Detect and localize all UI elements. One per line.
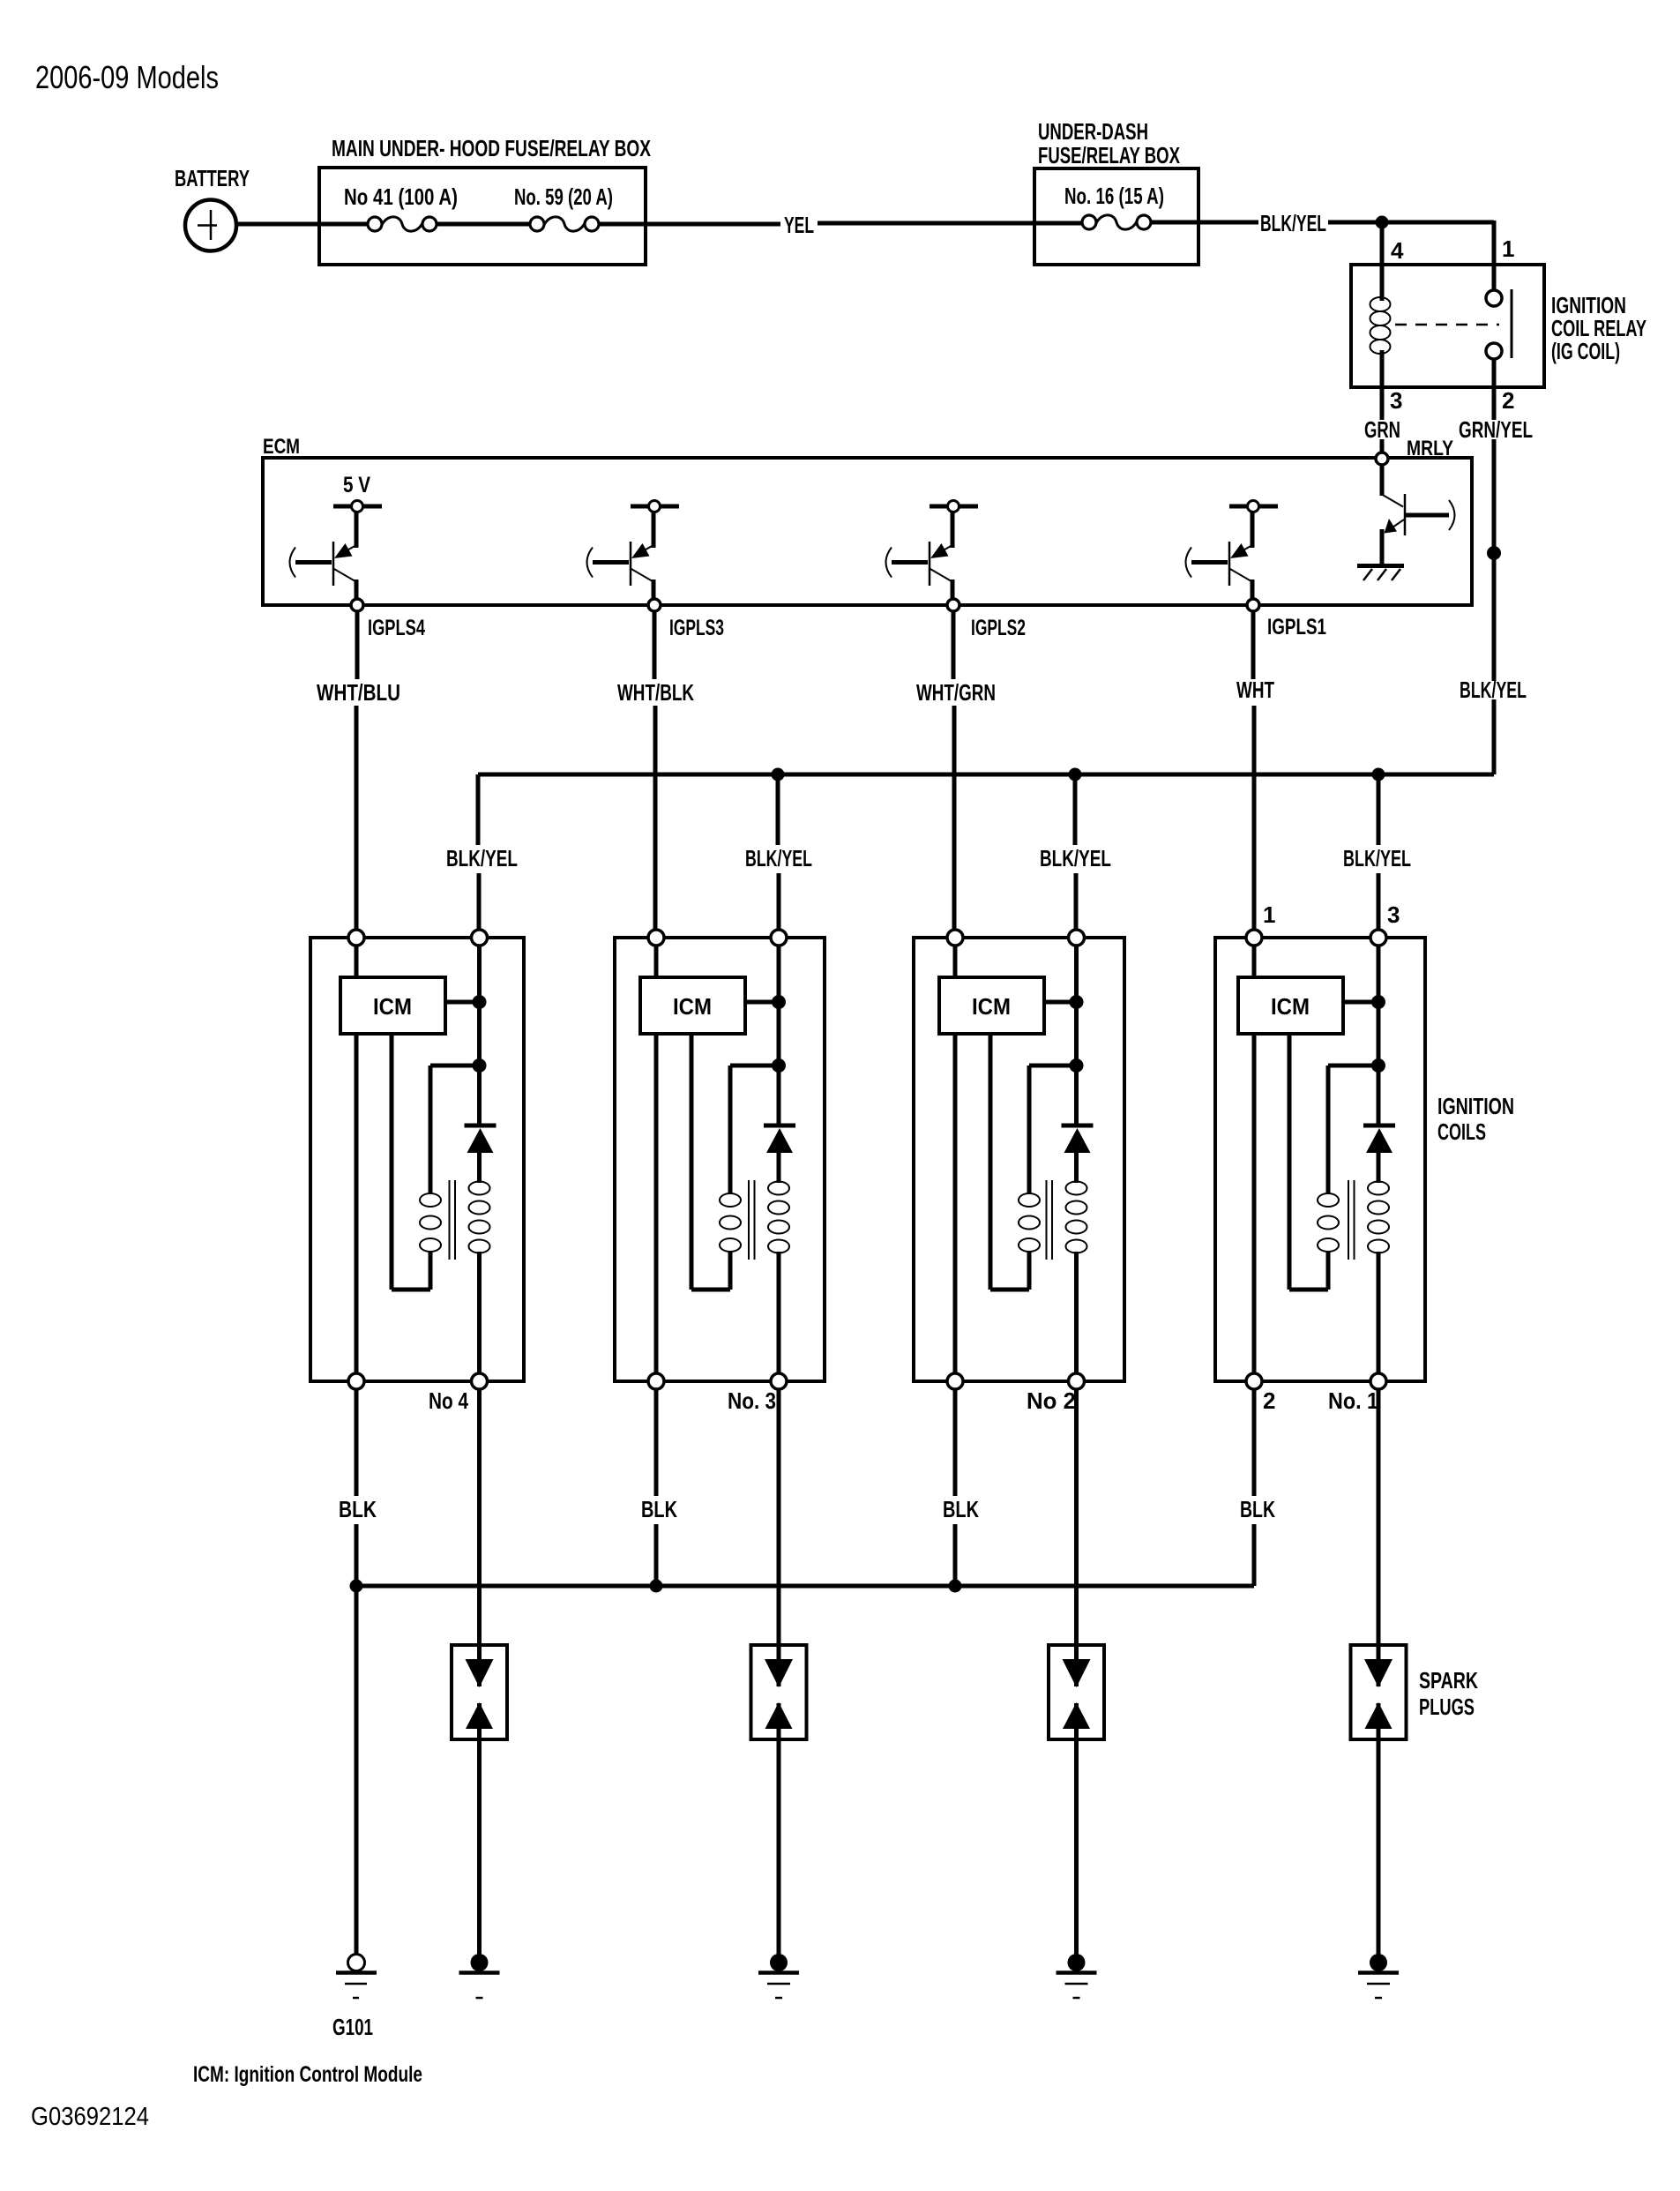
secondary winding of No 4: [469, 1151, 490, 1373]
svg-text:BLK/YEL: BLK/YEL: [1040, 845, 1111, 871]
pin number 1: [1502, 236, 1514, 262]
svg-text:2006-09 Models: 2006-09 Models: [35, 59, 219, 95]
ECM box: [263, 435, 1472, 605]
ground spark plug No 1: [1358, 1954, 1399, 1998]
ICM module of No 3: [640, 977, 745, 1034]
wire ICM of No 4 output to supply node: [445, 1000, 480, 1005]
junction node bus to coil No 2 branch: [1069, 768, 1082, 781]
diode D of No 1: [1363, 1066, 1395, 1153]
wire coil No 2 secondary to spark plug: [1074, 1389, 1079, 1686]
svg-text:No. 59 (20 A): No. 59 (20 A): [514, 183, 613, 210]
junction node ICM output No 1: [1371, 995, 1385, 1009]
svg-text:BLK: BLK: [943, 1496, 979, 1522]
svg-text:No 4: No 4: [429, 1387, 468, 1414]
wire WHT/BLK ECM IGPLS3 to coil No 3: [654, 611, 655, 930]
svg-text:No 2: No 2: [1027, 1387, 1076, 1414]
junction node ICM output No 3: [772, 995, 786, 1009]
wire supply node to primary node No 2: [1074, 1002, 1079, 1066]
transistor Q5 MRLY driver: [1381, 465, 1455, 565]
wire WHT ECM IGPLS1 to coil No 1: [1253, 611, 1254, 930]
transistor Q4 IGPLS4 driver with 5 V supply: [290, 473, 383, 611]
svg-text:BLK: BLK: [641, 1496, 677, 1522]
svg-text:G03692124: G03692124: [31, 2103, 149, 2131]
svg-text:3: 3: [1390, 387, 1402, 414]
svg-text:WHT/BLU: WHT/BLU: [317, 679, 400, 706]
relay contact: [1395, 265, 1512, 387]
wire supply node to primary node No 1: [1377, 1002, 1381, 1066]
label GRN: [1364, 416, 1400, 443]
label BLK No 1: [1240, 1496, 1275, 1522]
ignition coil relay box: [1351, 265, 1646, 387]
No 1 bottom right terminal: [1370, 1373, 1386, 1389]
branch wire BLK/YEL to coil No 1: [1377, 774, 1381, 930]
svg-text:YEL: YEL: [784, 212, 814, 238]
label BLK/YEL right side: [1460, 677, 1527, 703]
svg-text:ICM: Ignition Control Module: ICM: Ignition Control Module: [193, 2062, 422, 2087]
label IGPLS1: [1267, 615, 1326, 639]
svg-text:1: 1: [1502, 236, 1514, 262]
svg-text:No. 16 (15 A): No. 16 (15 A): [1064, 183, 1164, 209]
ignition coil No 1 box: [1215, 938, 1425, 1381]
No 4 bottom left terminal: [348, 1373, 364, 1389]
wire ICM of No 3 output to supply node: [745, 1000, 779, 1005]
diode D of No 3: [764, 1066, 795, 1153]
wire junction to relay pin 1: [1382, 221, 1494, 265]
primary winding of No 1: [1289, 1034, 1378, 1290]
wire supply node to primary node No 3: [777, 1002, 781, 1066]
wire supply into No 1: [1377, 946, 1381, 1002]
svg-text:(IG COIL): (IG COIL): [1551, 338, 1620, 364]
svg-text:2: 2: [1263, 1387, 1275, 1414]
ground spark plug No 2: [1057, 1954, 1097, 1998]
No 3 top left terminal: [648, 930, 664, 946]
diode D of No 2: [1062, 1066, 1094, 1153]
wire WHT/GRN ECM IGPLS2 to coil No 2: [953, 611, 954, 930]
label BLK No 3: [641, 1496, 677, 1522]
junction node bus to coil No 3 branch: [772, 768, 785, 781]
svg-text:BLK/YEL: BLK/YEL: [1260, 210, 1326, 236]
label IGPLS2: [971, 616, 1026, 640]
figure number G03692124: [31, 2103, 149, 2131]
wire supply into No 3: [777, 946, 781, 1002]
junction node BLK bus coil No 2: [949, 1580, 962, 1593]
ECM MRLY output terminal: [1376, 452, 1388, 465]
wire ICM of No 1 output to supply node: [1343, 1000, 1378, 1005]
label No. 1 of No 1: [1328, 1387, 1378, 1414]
branch wire BLK/YEL to coil No 2: [1075, 774, 1076, 930]
svg-text:WHT/GRN: WHT/GRN: [916, 679, 996, 706]
svg-text:ICM: ICM: [673, 993, 712, 1020]
spark plug P4: [452, 1645, 507, 1739]
junction node ICM output No 4: [473, 995, 487, 1009]
pin number 2: [1502, 387, 1514, 414]
pin number 3 coil No 1: [1387, 901, 1400, 928]
svg-text:MAIN UNDER- HOOD FUSE/RELAY BO: MAIN UNDER- HOOD FUSE/RELAY BOX: [332, 135, 651, 161]
wire ICM of No 2 output to supply node: [1044, 1000, 1077, 1005]
wire BLK from coil No 2: [953, 1389, 958, 1586]
svg-text:ICM: ICM: [1271, 993, 1310, 1020]
svg-text:COILS: COILS: [1437, 1118, 1486, 1145]
wire spark plug No 2 to ground: [1074, 1703, 1079, 1955]
wire YEL fuse box to under-dash box: [599, 223, 1082, 224]
svg-text:IGPLS1: IGPLS1: [1267, 615, 1326, 639]
wire GRN relay pin 3 to ECM MRLY: [1380, 387, 1385, 452]
wire BLK bus down to ground G101: [355, 1586, 359, 1955]
junction node primary/diode No 4: [473, 1058, 487, 1073]
svg-text:WHT/BLK: WHT/BLK: [617, 679, 694, 706]
primary winding of No 2: [990, 1034, 1077, 1290]
svg-text:No. 1: No. 1: [1328, 1387, 1378, 1414]
junction node bus to coil No 1 branch: [1372, 768, 1385, 781]
pin number 4: [1391, 237, 1404, 264]
wire coil No 4 secondary to spark plug: [477, 1389, 482, 1686]
transformer core of No 1: [1348, 1180, 1355, 1260]
ignition coil No 4 box: [310, 938, 524, 1381]
label MRLY: [1407, 437, 1453, 460]
svg-text:4: 4: [1391, 237, 1404, 264]
wire supply into No 4: [477, 946, 482, 1002]
svg-text:3: 3: [1387, 901, 1400, 928]
label YEL: [784, 212, 814, 238]
svg-text:BLK: BLK: [1240, 1496, 1275, 1522]
No 3 top right terminal: [771, 930, 787, 946]
svg-text:BLK/YEL: BLK/YEL: [1460, 677, 1527, 703]
wire supply into No 2: [1074, 946, 1079, 1002]
spark plug P3: [751, 1645, 807, 1739]
fuse No. 16 (15 A): [1064, 183, 1164, 229]
transformer core of No 3: [749, 1180, 755, 1260]
wire trigger into ICM of No 4: [355, 946, 359, 977]
wire ICM of No 2 to ground terminal: [953, 1034, 958, 1373]
No 1 top right terminal: [1370, 930, 1386, 946]
junction node primary/diode No 2: [1070, 1058, 1084, 1073]
ICM module of No 2: [939, 977, 1044, 1034]
svg-text:ICM: ICM: [972, 993, 1011, 1020]
label BLK/YEL branch 3: [745, 845, 812, 871]
primary winding of No 4: [392, 1034, 480, 1290]
svg-text:No. 3: No. 3: [728, 1387, 776, 1414]
wire WHT/BLU ECM IGPLS4 to coil No 4: [356, 611, 357, 930]
wire ICM of No 1 to ground terminal: [1252, 1034, 1257, 1373]
under-dash fuse/relay box: [1034, 118, 1198, 265]
wire BLK from coil No 4: [355, 1389, 359, 1586]
svg-text:1: 1: [1263, 901, 1275, 928]
ignition coil No 2 box: [914, 938, 1124, 1381]
junction node BLK bus coil No 3: [650, 1580, 663, 1593]
junction node on BLK/YEL wire: [1487, 546, 1501, 560]
fuse No 41 (100 A): [344, 183, 458, 231]
ignition coil No 3 box: [615, 938, 825, 1381]
svg-text:5 V: 5 V: [343, 473, 370, 497]
spark plug P1: [1351, 1645, 1407, 1739]
label BLK No 4: [339, 1496, 377, 1522]
svg-text:BLK/YEL: BLK/YEL: [446, 845, 518, 871]
transistor Q2 IGPLS2 driver: [886, 501, 979, 612]
No 2 bottom left terminal: [947, 1373, 963, 1389]
junction node primary/diode No 3: [772, 1058, 786, 1073]
diode D of No 4: [465, 1066, 497, 1153]
No 4 top left terminal: [348, 930, 364, 946]
wire coil No 3 secondary to spark plug: [777, 1389, 781, 1686]
wire BLK/YEL supply bus: [478, 773, 1494, 777]
svg-text:SPARK: SPARK: [1419, 1667, 1478, 1694]
fuse No. 59 (20 A): [514, 183, 613, 231]
battery B1: [175, 165, 250, 251]
label WHT/BLU: [317, 679, 400, 706]
label BLK/YEL branch 4: [446, 845, 518, 871]
wire trigger into ICM of No 2: [953, 946, 958, 977]
secondary winding of No 2: [1066, 1151, 1087, 1373]
wire BLK from coil No 3: [654, 1389, 659, 1586]
junction node ICM output No 2: [1070, 995, 1084, 1009]
wire spark plug No 3 to ground: [777, 1703, 781, 1955]
ground spark plug No 3: [758, 1954, 799, 1998]
No 4 top right terminal: [472, 930, 488, 946]
label GRN/YEL: [1459, 416, 1533, 443]
svg-text:2: 2: [1502, 387, 1514, 414]
spark plug P2: [1049, 1645, 1104, 1739]
label SPARK PLUGS: [1419, 1667, 1478, 1720]
pin number 3: [1390, 387, 1402, 414]
wire ICM of No 3 to ground terminal: [654, 1034, 659, 1373]
svg-text:FUSE/RELAY BOX: FUSE/RELAY BOX: [1038, 142, 1180, 168]
svg-text:No 41 (100 A): No 41 (100 A): [344, 183, 458, 210]
svg-text:IGPLS2: IGPLS2: [971, 616, 1026, 640]
title text 2006-09 Models: [35, 59, 219, 95]
ground spark plug No 4: [459, 1954, 500, 1998]
ICM module of No 4: [340, 977, 445, 1034]
svg-text:GRN: GRN: [1364, 416, 1400, 443]
wire trigger into ICM of No 1: [1252, 946, 1257, 977]
wire ICM of No 4 to ground terminal: [355, 1034, 359, 1373]
label BLK/YEL branch 2: [1040, 845, 1111, 871]
No 2 top right terminal: [1069, 930, 1085, 946]
ground inside ECM for MRLY emitter: [1357, 566, 1404, 581]
wire battery to main fuse box: [236, 222, 368, 227]
svg-text:GRN/YEL: GRN/YEL: [1459, 416, 1533, 443]
wire BLK ground bus: [356, 1584, 1254, 1589]
svg-text:PLUGS: PLUGS: [1419, 1694, 1475, 1720]
label BLK No 2: [943, 1496, 979, 1522]
svg-text:G101: G101: [332, 2014, 373, 2040]
wire junction to relay pin 4: [1380, 222, 1385, 265]
transformer core of No 4: [450, 1180, 456, 1260]
No 4 bottom right terminal: [472, 1373, 488, 1389]
pin number 1 coil No 1: [1263, 901, 1275, 928]
No 1 bottom left terminal: [1246, 1373, 1262, 1389]
wire coil No 1 secondary to spark plug: [1377, 1389, 1381, 1686]
main under-hood fuse/relay box: [319, 135, 651, 265]
svg-text:BLK/YEL: BLK/YEL: [745, 845, 812, 871]
junction node primary/diode No 1: [1371, 1058, 1385, 1073]
wire spark plug No 1 to ground: [1377, 1703, 1381, 1955]
label BLK/YEL branch 1: [1343, 845, 1411, 871]
label IGPLS4: [368, 616, 425, 640]
label WHT/GRN: [916, 679, 996, 706]
No 3 bottom right terminal: [771, 1373, 787, 1389]
svg-text:ICM: ICM: [373, 993, 412, 1020]
No 3 bottom left terminal: [648, 1373, 664, 1389]
label No. 3 of No 3: [728, 1387, 776, 1414]
No 2 top left terminal: [947, 930, 963, 946]
svg-text:IGPLS3: IGPLS3: [669, 616, 724, 640]
label IGNITION COILS: [1437, 1093, 1514, 1145]
svg-text:BLK: BLK: [339, 1496, 377, 1522]
wire between fuses: [437, 222, 530, 227]
ICM module of No 1: [1238, 977, 1343, 1034]
wire spark plug No 4 to ground: [477, 1703, 482, 1955]
note ICM definition: [193, 2062, 422, 2087]
secondary winding of No 1: [1368, 1151, 1389, 1373]
label IGPLS3: [669, 616, 724, 640]
svg-text:BLK/YEL: BLK/YEL: [1343, 845, 1411, 871]
label WHT/BLK: [617, 679, 694, 706]
transistor Q3 IGPLS3 driver: [587, 501, 680, 612]
label pin 2 of No 1: [1263, 1387, 1275, 1414]
wire GRN/YEL then BLK/YEL relay pin 2 down to coil supply bus: [1492, 387, 1497, 774]
wire BLK from coil No 1: [1252, 1389, 1257, 1586]
transformer core of No 2: [1047, 1180, 1053, 1260]
primary winding of No 3: [691, 1034, 779, 1290]
junction node at relay feed: [1376, 216, 1389, 229]
label No 2 of No 2: [1027, 1387, 1076, 1414]
label BLK/YEL: [1260, 210, 1326, 236]
branch wire BLK/YEL to coil No 3: [778, 774, 779, 930]
secondary winding of No 3: [768, 1151, 789, 1373]
wire BLK/YEL under-dash box to junction: [1151, 221, 1382, 225]
label WHT: [1236, 677, 1274, 703]
branch wire BLK/YEL to coil No 4: [478, 774, 479, 930]
wire trigger into ICM of No 3: [654, 946, 659, 977]
ground G101: [332, 1955, 377, 2041]
svg-text:ECM: ECM: [263, 435, 300, 459]
svg-text:WHT: WHT: [1236, 677, 1274, 703]
label No 4 of No 4: [429, 1387, 468, 1414]
junction node BLK bus coil No 4: [350, 1580, 363, 1593]
transistor Q1 IGPLS1 driver: [1186, 501, 1279, 612]
No 2 bottom right terminal: [1069, 1373, 1085, 1389]
svg-text:BATTERY: BATTERY: [175, 165, 250, 191]
svg-text:UNDER-DASH: UNDER-DASH: [1038, 118, 1148, 145]
svg-text:IGPLS4: IGPLS4: [368, 616, 425, 640]
wire supply node to primary node No 4: [477, 1002, 482, 1066]
svg-text:IGNITION: IGNITION: [1437, 1093, 1514, 1119]
relay coil winding: [1370, 265, 1391, 387]
No 1 top left terminal: [1246, 930, 1262, 946]
